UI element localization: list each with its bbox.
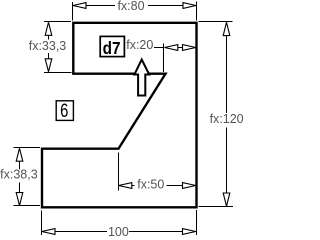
dimension fx:50 bbox=[119, 153, 183, 191]
svg-text:6: 6 bbox=[60, 100, 68, 121]
arrowhead fx:120 up bbox=[223, 22, 230, 35]
arrowhead fx:120 down bbox=[223, 193, 230, 206]
dimension line bbox=[226, 36, 228, 113]
extension line right bbox=[196, 2, 198, 21]
extension line top bbox=[14, 147, 41, 149]
dimension fx:80 bbox=[73, 2, 197, 21]
arrowhead fx:38,3 up bbox=[16, 148, 23, 161]
svg-text:fx:120: fx:120 bbox=[210, 112, 244, 126]
dimension 100 bbox=[42, 210, 197, 235]
arrowhead fx:80 left bbox=[73, 3, 86, 9]
dimension line bbox=[86, 5, 115, 7]
arrowhead fx:20 left bbox=[165, 45, 178, 51]
extension line top bbox=[199, 21, 233, 23]
extension line right bbox=[196, 210, 198, 235]
label d7 box bbox=[100, 36, 124, 56]
dimension fx:120 bbox=[199, 22, 234, 207]
svg-text:d7: d7 bbox=[103, 38, 121, 58]
extension line left bbox=[118, 153, 120, 191]
extension line bottom bbox=[44, 72, 72, 74]
dimension fx:38,3 bbox=[14, 148, 41, 206]
dimension line bbox=[154, 47, 164, 49]
svg-text:fx:20: fx:20 bbox=[126, 38, 153, 52]
arrowhead fx:38,3 down bbox=[16, 193, 23, 206]
label 6 box bbox=[56, 101, 73, 121]
extension line top bbox=[44, 21, 71, 23]
arrowhead fx:50 right bbox=[183, 183, 196, 189]
dimension line bbox=[132, 185, 135, 187]
pad direction arrow bbox=[134, 60, 149, 96]
arrowhead fx:20 right bbox=[183, 45, 196, 51]
extension line bottom bbox=[14, 205, 41, 207]
dimension fx:33,3 bbox=[44, 22, 72, 73]
arrowhead fx:80 right bbox=[183, 3, 196, 9]
arrowhead fx:33,3 up bbox=[45, 22, 52, 35]
arrowhead fx:50 left bbox=[119, 183, 132, 189]
svg-text:fx:38,3: fx:38,3 bbox=[0, 168, 38, 182]
dimension fx:20 bbox=[154, 44, 184, 73]
arrowhead 100 left bbox=[42, 229, 55, 235]
svg-text:100: 100 bbox=[108, 225, 129, 237]
extension line left bbox=[163, 44, 165, 73]
part outline bbox=[42, 23, 197, 208]
extension line left bbox=[41, 211, 43, 236]
dimension line bbox=[48, 35, 50, 40]
svg-text:fx:33,3: fx:33,3 bbox=[29, 39, 67, 53]
extension line left bbox=[72, 2, 74, 21]
arrowhead 100 right bbox=[183, 229, 196, 235]
dimension line bbox=[19, 162, 21, 170]
extension line bottom bbox=[199, 206, 234, 208]
dimension line bbox=[55, 231, 108, 233]
svg-text:fx:50: fx:50 bbox=[137, 177, 164, 191]
svg-text:fx:80: fx:80 bbox=[117, 0, 144, 13]
arrowhead fx:33,3 down bbox=[45, 59, 52, 72]
